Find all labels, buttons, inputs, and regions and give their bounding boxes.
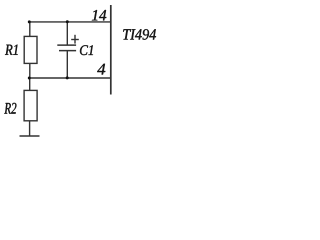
wire: R1 top lead [29,22,31,37]
label: IC name TI494 [123,29,156,40]
wire: R1 bottom lead [29,63,31,78]
IC U1 TI494 left edge (pins 14 and 4) [110,5,112,95]
wire: R2 top lead [29,78,31,91]
resistor R1 [24,36,37,63]
ground [20,135,40,137]
node: junction R1 top on top net [28,20,31,23]
node: junction C1 top on top net [66,20,69,23]
label: capacitor designator C1 [80,45,93,55]
resistor R2 [24,90,37,120]
label: pin number 14 [92,10,106,20]
wire: top net (R1 top / C1 top to pin 14) [28,21,111,23]
wire: middle net (R1/R2 junction / C1 bottom to pin 4) [28,77,111,79]
wire: C1 top lead [66,22,68,45]
label: pin number 4 [97,64,105,75]
label: resistor designator R2 [4,103,16,114]
node: junction R1/R2 on middle net [28,77,31,80]
wire: R2 bottom lead [29,121,31,136]
capacitor C1 polarity plus sign [71,35,79,44]
wire: C1 bottom lead [66,51,68,78]
node: junction C1 bottom on middle net [66,76,69,79]
capacitor C1 plates [57,45,76,51]
label: resistor designator R1 [5,45,18,55]
